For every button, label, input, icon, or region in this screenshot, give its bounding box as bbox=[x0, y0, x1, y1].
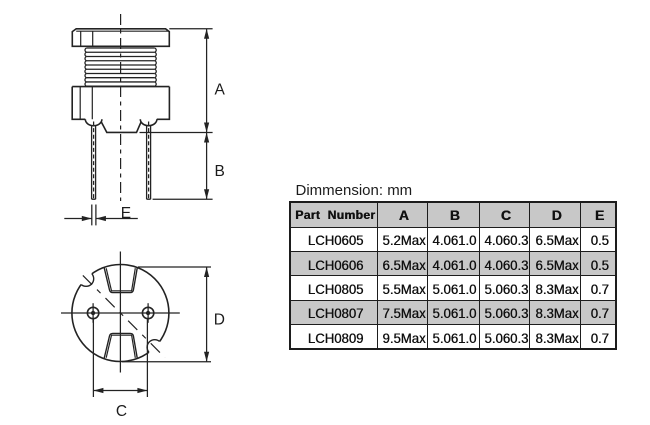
lead hole 2 (right) bbox=[142, 303, 153, 323]
svg-text:E: E bbox=[121, 205, 131, 222]
svg-text:A: A bbox=[215, 81, 226, 98]
dimension A extension and witness lines bbox=[140, 29, 213, 133]
arrowheads of dimensions A, B and E bbox=[82, 29, 209, 221]
lead pin 1 (left) bbox=[92, 122, 96, 200]
edge notches on body circle bbox=[79, 271, 163, 355]
dimension B extension and witness lines bbox=[153, 133, 213, 200]
lead pin 2 (right) bbox=[147, 122, 151, 200]
dimension D extension and witness lines bbox=[122, 267, 211, 362]
coil winding of inductor bbox=[85, 48, 156, 86]
bottom slot in base flange bbox=[104, 333, 137, 359]
svg-text:D: D bbox=[214, 312, 225, 329]
base flange of drum core bbox=[72, 87, 169, 133]
dimension C extension and witness lines bbox=[93, 320, 147, 398]
dimension E extension and witness lines bbox=[64, 205, 138, 226]
table caption "Dimmension: mm" bbox=[296, 182, 413, 199]
svg-text:B: B bbox=[215, 163, 225, 180]
bottom view body circle bbox=[72, 265, 169, 362]
dimension table bbox=[289, 201, 617, 350]
diagonal dashed centerline of bottom view bbox=[78, 271, 165, 358]
arrowheads of dimensions C and D bbox=[93, 267, 209, 393]
top flange of drum core bbox=[72, 29, 169, 47]
lead hole 1 (left) bbox=[87, 303, 98, 323]
centerline of side view bbox=[120, 14, 122, 201]
crosshair centerlines of bottom view bbox=[61, 252, 180, 373]
svg-text:C: C bbox=[116, 403, 127, 420]
top slot in base flange bbox=[104, 267, 137, 293]
